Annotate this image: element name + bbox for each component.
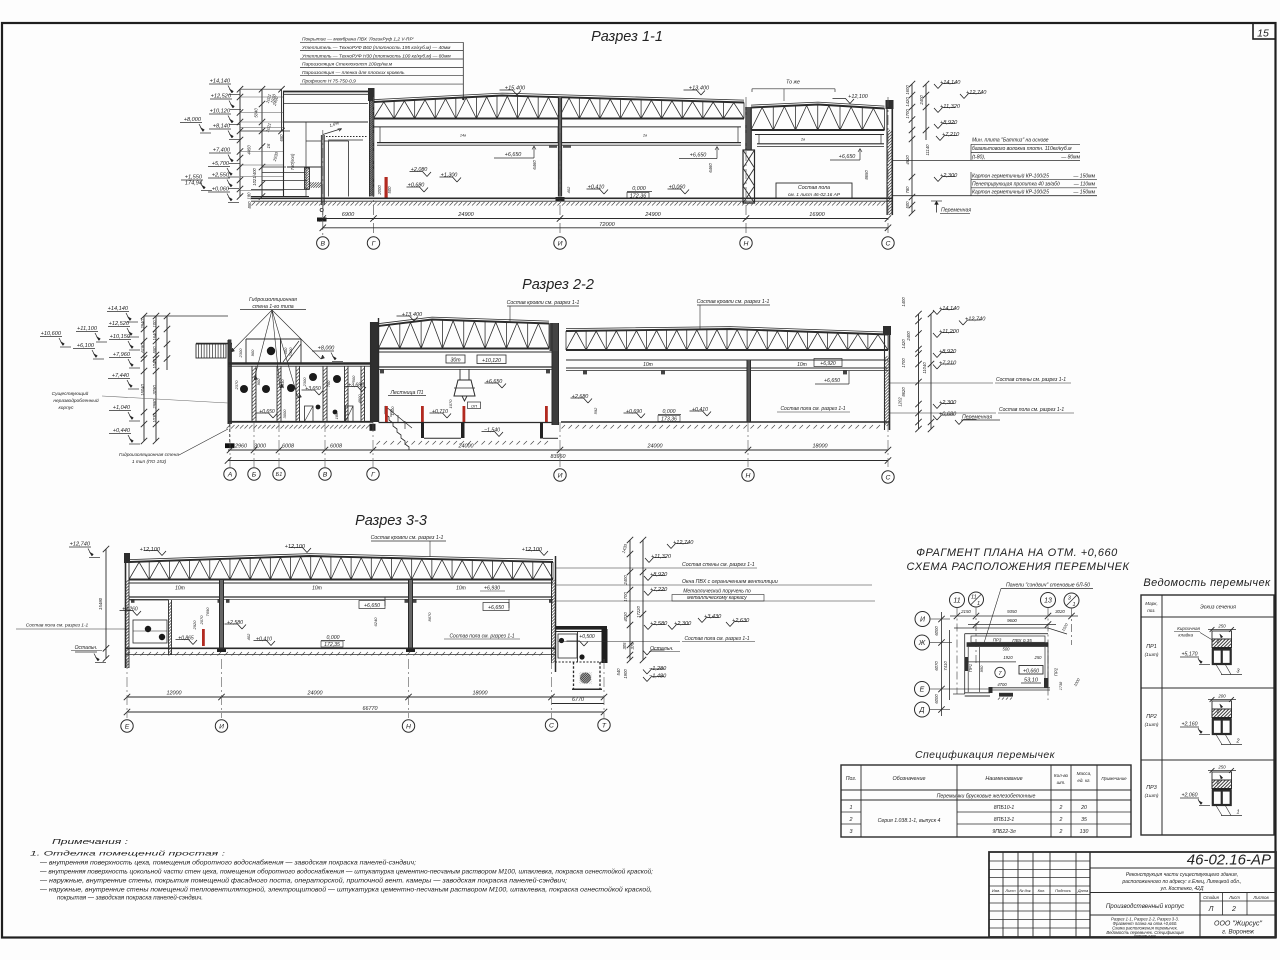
svg-text:И: И <box>558 472 563 479</box>
svg-text:2в: 2в <box>800 138 805 142</box>
svg-text:Е: Е <box>125 723 130 730</box>
svg-text:2400: 2400 <box>919 95 924 106</box>
svg-text:+0,650: +0,650 <box>259 409 275 415</box>
svg-text:+8,140: +8,140 <box>213 124 231 130</box>
svg-text:+7,210: +7,210 <box>942 132 960 138</box>
svg-text:+0,060: +0,060 <box>669 185 686 191</box>
svg-text:И: И <box>558 240 563 247</box>
svg-text:+3,680: +3,680 <box>348 383 364 389</box>
svg-text:24000: 24000 <box>307 691 323 697</box>
svg-text:2: 2 <box>1059 805 1063 811</box>
svg-text:+6,100: +6,100 <box>77 343 95 349</box>
svg-text:11: 11 <box>971 595 977 601</box>
svg-text:13: 13 <box>1044 597 1052 604</box>
svg-text:+2,550: +2,550 <box>212 173 230 179</box>
svg-text:11140: 11140 <box>925 144 930 156</box>
svg-text:1: 1 <box>1237 810 1240 816</box>
svg-text:см. 1 лист 46-02.16 АР: см. 1 лист 46-02.16 АР <box>788 192 841 198</box>
svg-text:+6,930: +6,930 <box>484 586 500 592</box>
svg-text:— 110мм: — 110мм <box>1073 182 1096 188</box>
svg-text:2400: 2400 <box>623 575 628 586</box>
svg-text:750(пол): 750(пол) <box>290 153 295 170</box>
svg-text:1930: 1930 <box>280 379 285 389</box>
svg-text:+0,865: +0,865 <box>178 636 194 642</box>
svg-text:+15,400: +15,400 <box>505 86 526 92</box>
svg-text:180: 180 <box>247 192 252 200</box>
svg-text:2400: 2400 <box>906 331 911 342</box>
svg-text:+12,100: +12,100 <box>522 547 543 553</box>
svg-text:6460: 6460 <box>532 160 537 170</box>
svg-text:№ док.: № док. <box>1019 889 1031 893</box>
svg-text:8620: 8620 <box>901 387 906 397</box>
svg-text:1700: 1700 <box>623 592 628 602</box>
svg-text:То же: То же <box>786 80 800 86</box>
svg-text:1: 1 <box>1072 602 1075 608</box>
svg-text:стена 1-го типа: стена 1-го типа <box>252 304 293 310</box>
svg-text:+2,300: +2,300 <box>939 400 957 406</box>
svg-text:24000: 24000 <box>458 444 474 450</box>
svg-text:Ведомость перемычек: Ведомость перемычек <box>1143 577 1271 589</box>
svg-text:2150: 2150 <box>960 609 971 614</box>
svg-text:+12,740: +12,740 <box>965 317 986 323</box>
svg-text:Кол.: Кол. <box>1038 888 1046 893</box>
svg-text:4620: 4620 <box>905 155 910 165</box>
svg-text:Состав пола см. разрез 1-1: Состав пола см. разрез 1-1 <box>26 623 89 629</box>
svg-text:— внутренняя поверхность цоко: — внутренняя поверхность цокольной части… <box>39 869 653 876</box>
svg-text:+6,650: +6,650 <box>824 378 840 384</box>
svg-text:ПВХ 0,35: ПВХ 0,35 <box>1012 638 1032 643</box>
svg-text:1700: 1700 <box>901 358 906 368</box>
svg-text:2: 2 <box>1059 817 1063 823</box>
svg-text:С: С <box>886 240 891 247</box>
svg-text:покрытая — заводская покраск: покрытая — заводская покраска панелей-сэ… <box>57 895 203 902</box>
svg-text:+0,060: +0,060 <box>212 187 230 193</box>
svg-text:1030: 1030 <box>152 413 157 423</box>
svg-text:72000: 72000 <box>599 222 615 228</box>
svg-text:2: 2 <box>1236 739 1240 745</box>
svg-text:6008: 6008 <box>282 444 294 450</box>
svg-text:С: С <box>549 722 554 729</box>
svg-text:+0,410: +0,410 <box>692 407 708 413</box>
svg-text:100: 100 <box>152 320 157 328</box>
svg-text:+12,100: +12,100 <box>285 544 306 550</box>
svg-text:(1шт): (1шт) <box>1145 793 1159 799</box>
svg-text:+6,920: +6,920 <box>820 361 836 367</box>
svg-text:Б1: Б1 <box>276 472 283 478</box>
svg-text:Листов: Листов <box>1252 895 1269 900</box>
svg-text:+11,200: +11,200 <box>939 329 960 335</box>
svg-text:10т: 10т <box>643 362 653 368</box>
svg-text:(1шт): (1шт) <box>1145 652 1159 658</box>
svg-text:9600: 9600 <box>1007 618 1017 623</box>
svg-text:+0,660: +0,660 <box>1023 668 1039 674</box>
svg-text:+0,410: +0,410 <box>256 637 272 643</box>
svg-text:9350: 9350 <box>1007 609 1017 614</box>
svg-text:1070: 1070 <box>448 399 453 409</box>
svg-text:Состав стены см. разрез 1-1: Состав стены см. разрез 1-1 <box>682 562 755 568</box>
svg-text:+6,650: +6,650 <box>486 379 503 385</box>
svg-text:180: 180 <box>334 412 339 419</box>
svg-text:+0,410: +0,410 <box>588 185 605 191</box>
svg-text:СХЕМА РАСПОЛОЖЕНИЯ ПЕРЕМЫЧЕК: СХЕМА РАСПОЛОЖЕНИЯ ПЕРЕМЫЧЕК <box>907 561 1130 573</box>
svg-text:305: 305 <box>622 642 627 650</box>
svg-text:ед. кг.: ед. кг. <box>1077 778 1090 783</box>
svg-text:+12,100: +12,100 <box>848 94 868 100</box>
svg-text:1: 1 <box>850 805 853 811</box>
svg-text:ПР3: ПР3 <box>1146 785 1157 791</box>
svg-text:+1,300: +1,300 <box>441 173 458 179</box>
svg-text:+2,080: +2,080 <box>411 167 428 173</box>
svg-text:18000: 18000 <box>813 444 828 450</box>
svg-text:Утеплитель — ТехноРУФ Н30 (пло: Утеплитель — ТехноРУФ Н30 (плотность 100… <box>302 53 451 59</box>
svg-text:1900: 1900 <box>623 669 628 679</box>
svg-text:Производственный корпус: Производственный корпус <box>1106 903 1185 910</box>
svg-text:700: 700 <box>326 380 331 387</box>
svg-text:+0,710: +0,710 <box>432 409 448 415</box>
svg-text:Профлист Н 75-750-0,9: Профлист Н 75-750-0,9 <box>302 78 356 84</box>
svg-text:2960: 2960 <box>234 444 247 450</box>
svg-text:540: 540 <box>616 668 621 676</box>
svg-text:3790: 3790 <box>152 385 157 395</box>
svg-text:+11,320: +11,320 <box>940 104 961 110</box>
svg-text:Панели "сэндвич" стеновые 6Л-5: Панели "сэндвич" стеновые 6Л-50 <box>1006 583 1090 589</box>
svg-text:1400: 1400 <box>390 406 395 416</box>
svg-text:А: А <box>227 471 233 478</box>
svg-text:550: 550 <box>152 346 157 354</box>
svg-text:−1,540: −1,540 <box>484 428 500 434</box>
svg-text:2000: 2000 <box>377 185 382 196</box>
svg-text:1 тип (ПО 153): 1 тип (ПО 153) <box>132 459 167 465</box>
svg-text:+10,120: +10,120 <box>210 109 231 115</box>
svg-text:1: 1 <box>977 601 980 607</box>
svg-text:+10,150: +10,150 <box>110 334 131 340</box>
svg-text:И: И <box>219 723 224 730</box>
svg-text:Поз.: Поз. <box>846 776 856 782</box>
svg-text:500: 500 <box>387 186 392 194</box>
svg-text:Состав кровли см. разрез 1-1: Состав кровли см. разрез 1-1 <box>697 299 770 305</box>
svg-text:Ж: Ж <box>918 640 926 647</box>
svg-text:+8,920: +8,920 <box>940 120 958 126</box>
svg-text:+10,120: +10,120 <box>482 358 501 364</box>
svg-text:1640: 1640 <box>152 331 157 341</box>
svg-text:+2,060: +2,060 <box>1181 793 1197 799</box>
svg-text:Эскиз сечения: Эскиз сечения <box>1200 605 1236 611</box>
svg-text:Состав пола: Состав пола <box>798 185 830 191</box>
svg-text:В: В <box>321 240 326 247</box>
svg-text:Лист: Лист <box>1228 895 1240 900</box>
svg-text:Покрытие — мембрана ПВХ 'Логик: Покрытие — мембрана ПВХ 'ЛогикРуф 1,2 V-… <box>302 37 415 43</box>
svg-text:6770: 6770 <box>572 697 584 703</box>
svg-text:1600: 1600 <box>905 85 910 95</box>
svg-text:9ПБ22-3л: 9ПБ22-3л <box>992 829 1015 835</box>
svg-text:18000: 18000 <box>473 691 488 697</box>
svg-text:Остальн.: Остальн. <box>75 645 98 651</box>
svg-text:17220: 17220 <box>636 606 641 618</box>
svg-text:+8,000: +8,000 <box>318 346 335 352</box>
svg-text:6180: 6180 <box>140 343 145 353</box>
svg-text:+14,140: +14,140 <box>108 306 129 312</box>
svg-text:Перемычки брусковые железобето: Перемычки брусковые железобетонные <box>937 794 1036 800</box>
svg-text:Картон герметичный КР-100/25: Картон герметичный КР-100/25 <box>972 173 1049 180</box>
svg-text:6460: 6460 <box>708 163 713 173</box>
svg-text:14в: 14в <box>460 134 466 138</box>
svg-text:1738: 1738 <box>1059 681 1063 690</box>
svg-text:Примечание: Примечание <box>1101 776 1127 781</box>
svg-text:+5,170: +5,170 <box>1181 652 1197 658</box>
svg-text:+12,100: +12,100 <box>140 547 161 553</box>
svg-text:+8,000: +8,000 <box>184 117 202 123</box>
svg-text:24000: 24000 <box>647 444 663 450</box>
svg-text:ООО "Жирсус": ООО "Жирсус" <box>1214 921 1262 928</box>
svg-text:500: 500 <box>351 375 356 382</box>
svg-text:Дата: Дата <box>1077 888 1089 893</box>
svg-text:Разрез 2-2: Разрез 2-2 <box>522 277 594 293</box>
svg-text:Кол-во: Кол-во <box>1054 773 1069 778</box>
svg-text:Е: Е <box>920 686 925 693</box>
svg-text:(1шт): (1шт) <box>1145 722 1159 728</box>
svg-text:+2,580: +2,580 <box>650 621 668 627</box>
svg-text:расположенного по адресу: г.Ел: расположенного по адресу: г.Елец, Липецк… <box>1121 878 1241 885</box>
svg-text:500: 500 <box>905 201 910 209</box>
svg-text:0,000: 0,000 <box>663 409 676 415</box>
svg-text:Утеплитель — ТехноРУФ В60 (пло: Утеплитель — ТехноРУФ В60 (плотность 195… <box>302 45 451 51</box>
svg-text:30т: 30т <box>450 358 461 364</box>
svg-text:+6,650: +6,650 <box>488 605 504 611</box>
svg-text:Картон герметичный КР-100/25: Картон герметичный КР-100/25 <box>972 188 1049 195</box>
svg-text:0,000: 0,000 <box>327 635 340 641</box>
svg-text:Состав кровли см. разрез 1-1: Состав кровли см. разрез 1-1 <box>507 300 580 306</box>
svg-text:4020: 4020 <box>623 612 628 622</box>
svg-text:2300: 2300 <box>302 377 307 388</box>
svg-text:3000: 3000 <box>282 409 287 419</box>
svg-text:174,94: 174,94 <box>185 181 202 187</box>
svg-text:Н: Н <box>746 472 751 479</box>
svg-text:+6,650: +6,650 <box>505 152 522 158</box>
svg-text:Наименование: Наименование <box>985 776 1022 782</box>
svg-text:корпус: корпус <box>58 406 74 411</box>
svg-text:неразводробленный: неразводробленный <box>53 397 99 404</box>
svg-text:1. Отделка помещений простая :: 1. Отделка помещений простая : <box>30 850 225 858</box>
svg-text:+7,220: +7,220 <box>650 587 668 593</box>
svg-text:— внутренняя поверхность цеха: — внутренняя поверхность цеха, помещения… <box>39 860 416 867</box>
svg-text:+7,210: +7,210 <box>939 361 957 367</box>
svg-text:Состав пола см. разрез 1-1: Состав пола см. разрез 1-1 <box>449 634 514 640</box>
svg-text:2: 2 <box>849 817 853 823</box>
svg-text:2370: 2370 <box>234 380 239 391</box>
svg-text:2070: 2070 <box>199 615 204 626</box>
svg-text:+12,740: +12,740 <box>966 90 987 96</box>
svg-text:Состав пола см. разрез 1-1: Состав пола см. разрез 1-1 <box>999 407 1064 413</box>
svg-text:+6,650: +6,650 <box>839 154 856 160</box>
svg-text:130: 130 <box>1080 829 1089 835</box>
svg-text:375: 375 <box>630 642 635 650</box>
svg-text:Состав стены см. разрез 1-1: Состав стены см. разрез 1-1 <box>996 377 1066 383</box>
svg-text:16: 16 <box>266 143 271 148</box>
svg-text:592: 592 <box>593 407 598 414</box>
svg-text:900: 900 <box>256 378 261 385</box>
svg-text:Д: Д <box>919 707 925 714</box>
svg-text:+2,580: +2,580 <box>227 620 243 626</box>
svg-text:+14,140: +14,140 <box>210 79 231 85</box>
svg-text:6000: 6000 <box>934 626 939 636</box>
svg-text:ул. Костенко, 42Д: ул. Костенко, 42Д <box>1160 886 1204 892</box>
svg-text:7410: 7410 <box>943 661 948 671</box>
svg-text:г. Воронеж: г. Воронеж <box>1222 929 1255 936</box>
svg-text:Гидроизоляционная: Гидроизоляционная <box>249 297 297 303</box>
svg-text:+6,650: +6,650 <box>690 153 707 159</box>
svg-text:1400: 1400 <box>901 297 906 307</box>
svg-text:4450: 4450 <box>247 145 252 155</box>
svg-text:Пароизоляция Стеклохолст 100гр: Пароизоляция Стеклохолст 100гр/кв.м <box>302 62 393 68</box>
svg-text:Л: Л <box>1208 906 1214 913</box>
svg-text:2920: 2920 <box>192 620 197 631</box>
svg-text:ПР2: ПР2 <box>1146 714 1157 720</box>
svg-text:2в: 2в <box>642 134 647 138</box>
svg-text:+11,100: +11,100 <box>77 326 98 332</box>
svg-text:+11,320: +11,320 <box>651 554 672 560</box>
svg-text:Пенетрирующая пропитка 40 зв/а: Пенетрирующая пропитка 40 зв/абд <box>972 182 1060 188</box>
svg-text:+2,160: +2,160 <box>1181 722 1197 728</box>
svg-text:С: С <box>886 474 891 481</box>
svg-text:Существующий: Существующий <box>52 390 89 397</box>
svg-text:перемычек: перемычек <box>1134 934 1157 939</box>
svg-text:+13,400: +13,400 <box>689 86 710 92</box>
svg-text:8ПБ10-1: 8ПБ10-1 <box>994 805 1015 811</box>
svg-text:8650: 8650 <box>864 170 869 180</box>
svg-text:402: 402 <box>566 186 571 193</box>
svg-text:— 80мм: — 80мм <box>1060 154 1080 160</box>
svg-text:3000: 3000 <box>254 444 266 450</box>
svg-text:850: 850 <box>247 201 252 209</box>
svg-text:Состав пола см. разрез 1-1: Состав пола см. разрез 1-1 <box>780 406 845 412</box>
svg-text:+4,260: +4,260 <box>122 607 138 613</box>
svg-text:11: 11 <box>953 597 960 604</box>
svg-text:15: 15 <box>1257 28 1269 40</box>
svg-text:24900: 24900 <box>457 212 474 218</box>
svg-text:Н: Н <box>744 240 749 247</box>
svg-text:6008: 6008 <box>330 444 342 450</box>
svg-text:6000: 6000 <box>934 694 939 704</box>
svg-text:2: 2 <box>1059 829 1063 835</box>
svg-text:Состав пола см. разрез 1-1: Состав пола см. разрез 1-1 <box>684 636 749 642</box>
svg-text:Н: Н <box>406 723 411 730</box>
svg-text:Масса,: Масса, <box>1077 771 1092 776</box>
svg-text:+0,690: +0,690 <box>626 409 642 415</box>
svg-text:поз.: поз. <box>1147 608 1155 613</box>
svg-text:ОП: ОП <box>471 403 477 408</box>
svg-text:7690: 7690 <box>205 607 210 617</box>
svg-text:66770: 66770 <box>363 706 378 712</box>
svg-text:1040: 1040 <box>152 359 157 369</box>
svg-text:3: 3 <box>1237 669 1240 675</box>
svg-text:+0,680: +0,680 <box>408 183 425 189</box>
svg-text:250: 250 <box>1217 765 1226 770</box>
svg-text:Разрез 1-1: Разрез 1-1 <box>591 29 663 45</box>
svg-text:ФРАГМЕНТ ПЛАНА НА ОТМ. +0,: ФРАГМЕНТ ПЛАНА НА ОТМ. +0,660 <box>916 547 1118 559</box>
svg-text:Примечания :: Примечания : <box>52 839 128 846</box>
svg-text:Стадия: Стадия <box>1203 895 1219 900</box>
svg-text:10т: 10т <box>175 586 185 592</box>
svg-text:Подпись: Подпись <box>1055 888 1071 893</box>
svg-text:— наружные, внутренние стены: — наружные, внутренние стены помещений т… <box>39 887 652 894</box>
svg-text:+3,430: +3,430 <box>704 614 722 620</box>
svg-text:3: 3 <box>850 829 853 835</box>
svg-text:Остальн.: Остальн. <box>650 646 674 652</box>
svg-text:2: 2 <box>1231 906 1236 913</box>
svg-text:ПР2: ПР2 <box>1054 667 1059 676</box>
svg-text:Реконструкция части существующ: Реконструкция части существующего здания… <box>1126 872 1238 878</box>
svg-text:+7,400: +7,400 <box>213 148 231 154</box>
svg-text:— наружные, внутренние стены: — наружные, внутренние стены, покрытия п… <box>39 878 567 885</box>
svg-text:+10,600: +10,600 <box>41 331 62 337</box>
svg-text:15480: 15480 <box>98 597 103 610</box>
svg-text:В: В <box>323 471 328 478</box>
svg-text:2300: 2300 <box>288 347 293 358</box>
svg-text:Обозначение: Обозначение <box>892 776 925 782</box>
svg-text:+3,650: +3,650 <box>305 386 321 392</box>
svg-text:1700: 1700 <box>905 109 910 119</box>
svg-text:250: 250 <box>1034 655 1043 660</box>
svg-text:1420: 1420 <box>905 97 910 107</box>
svg-text:+12,520: +12,520 <box>109 321 130 327</box>
svg-text:Спецификация перемычек: Спецификация перемычек <box>915 749 1056 761</box>
svg-text:15040: 15040 <box>140 384 145 396</box>
svg-text:+12,740: +12,740 <box>70 542 91 548</box>
svg-text:+7,440: +7,440 <box>112 373 130 379</box>
svg-text:Лестница П1: Лестница П1 <box>389 390 423 396</box>
svg-text:10т: 10т <box>312 586 322 592</box>
svg-text:+2,300: +2,300 <box>674 621 692 627</box>
svg-text:Разрез 3-3: Разрез 3-3 <box>355 513 427 529</box>
svg-text:+2,630: +2,630 <box>732 618 750 624</box>
svg-text:+1,040: +1,040 <box>113 405 131 411</box>
svg-text:11040: 11040 <box>922 362 927 374</box>
svg-text:Марк,: Марк, <box>1145 601 1157 606</box>
svg-text:Серия 1.038.1-1, выпуск 4: Серия 1.038.1-1, выпуск 4 <box>878 818 941 824</box>
svg-text:250: 250 <box>1217 624 1226 629</box>
svg-text:шт.: шт. <box>1057 780 1066 785</box>
svg-text:+14,140: +14,140 <box>940 80 961 86</box>
svg-text:500: 500 <box>1003 647 1011 652</box>
svg-text:8ПБ13-1: 8ПБ13-1 <box>994 817 1015 823</box>
svg-text:46-02.16-АР: 46-02.16-АР <box>1187 852 1271 869</box>
svg-text:+0,500: +0,500 <box>579 634 595 640</box>
svg-text:+0,680: +0,680 <box>939 412 957 418</box>
svg-text:+2,680: +2,680 <box>572 394 589 400</box>
svg-text:— 150мм: — 150мм <box>1072 174 1095 180</box>
svg-text:Гидроизоляционная стена: Гидроизоляционная стена <box>119 452 179 458</box>
svg-text:кладка: кладка <box>1178 633 1193 638</box>
svg-text:6070: 6070 <box>934 661 939 671</box>
svg-text:+6,650: +6,650 <box>364 603 380 609</box>
svg-text:402: 402 <box>246 633 251 640</box>
svg-text:1202: 1202 <box>898 397 903 407</box>
svg-text:+0,440: +0,440 <box>113 428 131 434</box>
svg-text:900: 900 <box>250 349 255 356</box>
svg-text:Б: Б <box>252 471 257 478</box>
svg-text:200: 200 <box>1217 694 1226 699</box>
svg-text:+5,700: +5,700 <box>212 161 230 167</box>
svg-text:+12,520: +12,520 <box>211 94 232 100</box>
svg-text:ПР3: ПР3 <box>993 638 1002 643</box>
svg-text:Переменная: Переменная <box>941 208 971 214</box>
svg-text:4700: 4700 <box>997 682 1007 687</box>
svg-text:16900: 16900 <box>809 212 825 218</box>
svg-text:950: 950 <box>979 665 984 672</box>
svg-text:8670: 8670 <box>427 612 432 622</box>
svg-text:Кирпичная: Кирпичная <box>1177 626 1200 631</box>
svg-text:24900: 24900 <box>644 212 661 218</box>
